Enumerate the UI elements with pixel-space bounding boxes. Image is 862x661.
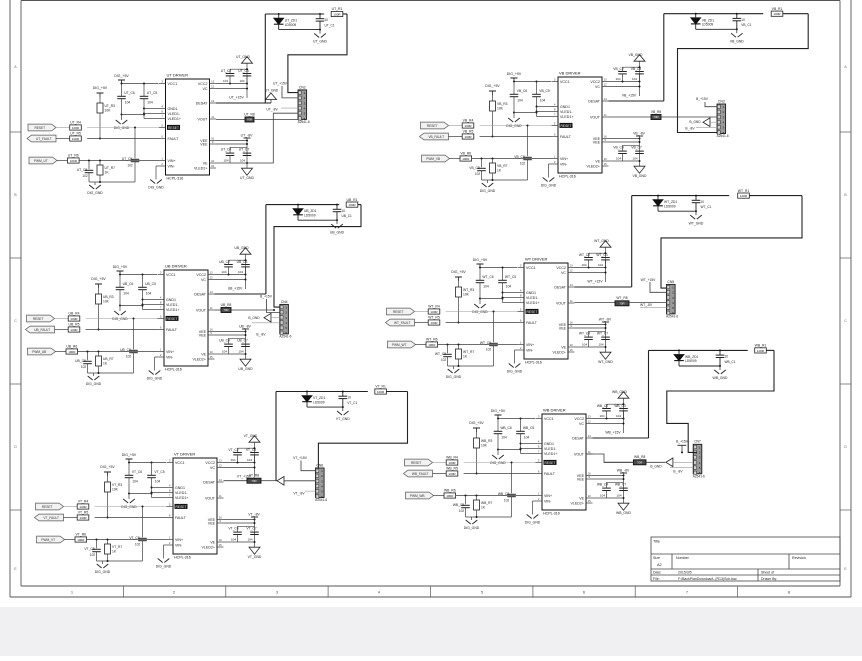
- svg-text:DIG_GND: DIG_GND: [148, 186, 164, 190]
- wire gnd rail 2: [482, 179, 528, 181]
- wire: [458, 297, 460, 323]
- svg-text:VB_R4: VB_R4: [463, 119, 474, 123]
- svg-text:VC: VC: [201, 278, 206, 282]
- ground UT_GND: [313, 34, 327, 44]
- svg-text:DIG_GND: DIG_GND: [86, 382, 102, 386]
- svg-text:104: 104: [582, 343, 587, 347]
- wire: [107, 476, 109, 482]
- power flag DIG_+5V: [469, 421, 484, 432]
- svg-text:VE: VE: [203, 161, 208, 165]
- svg-text:102: 102: [486, 347, 492, 351]
- svg-text:VIN-: VIN-: [526, 348, 534, 352]
- ground arrow: [264, 313, 271, 322]
- svg-text:File:: File:: [653, 577, 660, 581]
- svg-text:70R: 70R: [247, 118, 252, 122]
- svg-text:15: 15: [211, 164, 215, 168]
- node UT_FAULT: [27, 135, 56, 142]
- wire PWM net: [434, 495, 445, 497]
- svg-text:10: 10: [570, 343, 574, 347]
- svg-text:13: 13: [211, 80, 215, 84]
- wire: [640, 307, 667, 309]
- svg-text:VT_R1: VT_R1: [375, 385, 386, 389]
- power flag DIG_+5V: [451, 270, 466, 281]
- ground: [634, 55, 645, 62]
- svg-text:104: 104: [223, 79, 228, 83]
- svg-text:104: 104: [598, 263, 603, 267]
- svg-text:VCC2: VCC2: [205, 461, 215, 465]
- svg-text:10: 10: [701, 200, 705, 204]
- svg-text:VT_C1: VT_C1: [347, 401, 357, 405]
- connector CN4: [279, 300, 291, 339]
- resistor UT_R4: [70, 121, 82, 130]
- wire VCC1 rail: [129, 462, 166, 464]
- wire: [481, 159, 483, 168]
- svg-text:VOUT: VOUT: [196, 308, 207, 312]
- svg-text:104: 104: [599, 414, 604, 418]
- svg-text:DIG_+5V: DIG_+5V: [113, 265, 128, 269]
- node PWM_VB: [422, 155, 450, 162]
- svg-text:LD5009: LD5009: [685, 359, 697, 363]
- svg-text:GND1: GND1: [544, 442, 554, 446]
- svg-text:VEE: VEE: [208, 521, 216, 525]
- svg-text:100R: 100R: [430, 310, 438, 314]
- wire VOUT: [575, 302, 616, 304]
- wire zener rail UB: [266, 204, 339, 206]
- svg-text:VLED1-: VLED1-: [526, 296, 539, 300]
- svg-text:DIG_+5V: DIG_+5V: [507, 72, 522, 76]
- wire gnd rail: [122, 114, 145, 116]
- wire RESET net: [449, 125, 463, 127]
- wire: [133, 319, 135, 350]
- svg-text:UB_C9: UB_C9: [120, 348, 131, 352]
- svg-text:100R: 100R: [77, 538, 85, 542]
- svg-text:UT_R6: UT_R6: [68, 154, 79, 158]
- svg-text:VT_R7: VT_R7: [112, 545, 122, 549]
- svg-text:104: 104: [524, 436, 530, 440]
- svg-text:104: 104: [240, 159, 245, 163]
- svg-text:VB_R5: VB_R5: [463, 130, 474, 134]
- title block: [651, 537, 840, 581]
- wire: [281, 107, 298, 109]
- wire: [301, 461, 316, 471]
- svg-text:104: 104: [616, 414, 621, 418]
- power flag DIG_+5V: [473, 258, 488, 268]
- op-amp U_VB VB DRIVER HCPL-316: [552, 71, 609, 179]
- ground DIG_GND: [114, 120, 130, 130]
- ground DIG_GND: [95, 564, 111, 574]
- svg-text:UB_C7: UB_C7: [237, 339, 248, 343]
- wire PWM net: [65, 539, 76, 541]
- power flag DIG_+5V: [113, 265, 128, 275]
- svg-text:UB_-8V: UB_-8V: [239, 324, 252, 328]
- wire: [134, 128, 136, 159]
- op-amp U_WT WT DRIVER HCPL-316: [518, 257, 575, 365]
- svg-text:104: 104: [238, 270, 243, 274]
- svg-text:VC: VC: [561, 271, 566, 275]
- svg-text:WT_FAULT: WT_FAULT: [394, 321, 410, 325]
- svg-text:RESET: RESET: [176, 505, 187, 509]
- svg-text:VCC1: VCC1: [168, 82, 178, 86]
- svg-text:DESAT: DESAT: [554, 285, 567, 289]
- svg-text:102: 102: [82, 174, 88, 178]
- node RESET: [27, 315, 55, 322]
- svg-text:WT_R6: WT_R6: [426, 338, 438, 342]
- svg-text:Date:: Date:: [653, 571, 661, 575]
- wire zener rail VB: [664, 13, 763, 15]
- wire FAULT net: [449, 136, 463, 138]
- svg-text:RESET: RESET: [527, 310, 538, 314]
- power flag DIG_+5V: [122, 453, 137, 463]
- svg-text:UB_FAULT: UB_FAULT: [34, 328, 50, 332]
- svg-text:102: 102: [459, 509, 465, 513]
- resistor VT_R6: [75, 533, 87, 542]
- ground: [249, 436, 260, 443]
- svg-text:DIG_+5V: DIG_+5V: [469, 421, 484, 425]
- svg-text:10K: 10K: [105, 108, 112, 112]
- wire: [646, 461, 665, 463]
- wire gnd rail: [498, 449, 521, 451]
- svg-text:VT_R4: VT_R4: [78, 500, 89, 504]
- wire VCC2/VC rail: [609, 81, 640, 83]
- svg-text:WT_C1: WT_C1: [701, 205, 712, 209]
- svg-text:WT DRIVER: WT DRIVER: [525, 257, 547, 262]
- svg-text:VT_R3: VT_R3: [112, 483, 122, 487]
- svg-text:UB_R8: UB_R8: [221, 303, 232, 307]
- ground: [600, 241, 611, 248]
- wire VEE rail: [216, 140, 247, 142]
- wire FAULT net: [433, 473, 447, 475]
- wire FAULT net: [64, 517, 78, 519]
- resistor WB_R4: [446, 456, 458, 465]
- op-amp U_UB UB DRIVER HCPL-316: [158, 264, 215, 372]
- svg-text:104: 104: [221, 270, 226, 274]
- resistor VT_R8: [247, 474, 261, 484]
- resistor UB_R8: [221, 303, 232, 313]
- svg-text:VCC2: VCC2: [196, 273, 206, 277]
- wire VOUT jog: [587, 454, 633, 462]
- wire: [107, 540, 109, 545]
- svg-text:UB DRIVER: UB DRIVER: [165, 264, 187, 269]
- svg-text:VCC2: VCC2: [574, 417, 584, 421]
- wire: [128, 478, 130, 494]
- svg-text:HCPL-316: HCPL-316: [559, 175, 576, 179]
- svg-text:RESET: RESET: [42, 505, 53, 509]
- svg-text:70R: 70R: [653, 115, 658, 119]
- svg-text:104: 104: [501, 436, 507, 440]
- svg-text:UT_FAULT: UT_FAULT: [36, 137, 52, 141]
- svg-text:15: 15: [604, 162, 608, 166]
- svg-text:UB_R4: UB_R4: [69, 312, 80, 316]
- svg-text:VLED2+: VLED2+: [194, 166, 208, 170]
- svg-text:12: 12: [604, 83, 608, 87]
- wire zener rail WT: [632, 195, 730, 197]
- svg-text:UB_R7: UB_R7: [103, 357, 114, 361]
- svg-text:VCC2: VCC2: [590, 80, 600, 84]
- resistor WB_R5: [446, 467, 458, 476]
- svg-text:A2541-6: A2541-6: [315, 498, 327, 502]
- svg-text:UT_R5: UT_R5: [70, 132, 81, 136]
- svg-text:B_GND: B_GND: [650, 464, 662, 468]
- wire: [493, 312, 495, 343]
- svg-text:VT_GND: VT_GND: [248, 555, 262, 559]
- svg-text:RESET: RESET: [33, 317, 44, 321]
- node WT_FAULT: [386, 319, 415, 326]
- svg-text:102: 102: [90, 553, 96, 557]
- svg-text:UT_-8V: UT_-8V: [266, 108, 278, 112]
- svg-text:100R: 100R: [430, 321, 438, 325]
- svg-text:FAULT: FAULT: [544, 472, 556, 476]
- svg-text:10: 10: [347, 396, 351, 400]
- wire RESET net: [415, 311, 429, 313]
- wire: [319, 30, 321, 34]
- wire PWM net: [450, 158, 461, 160]
- svg-text:FAULT: FAULT: [175, 516, 187, 520]
- wire: [336, 220, 338, 224]
- wire: [237, 526, 239, 532]
- svg-text:UT_GND: UT_GND: [313, 40, 327, 44]
- svg-text:14: 14: [570, 283, 574, 287]
- resistor WB_R1: [755, 348, 767, 353]
- svg-text:100R: 100R: [464, 135, 472, 139]
- svg-text:LD5009: LD5009: [702, 23, 714, 27]
- wire: [288, 14, 347, 93]
- resistor UT_R7: [97, 165, 115, 175]
- svg-text:VIN-: VIN-: [560, 162, 568, 166]
- node PWM_VT: [37, 536, 65, 543]
- svg-text:FAULT: FAULT: [168, 137, 180, 141]
- wire: [527, 126, 529, 157]
- ground arrow: [277, 477, 284, 486]
- wire cap tops: [623, 66, 640, 68]
- svg-text:13: 13: [604, 78, 608, 82]
- wire: [673, 461, 693, 463]
- svg-text:VLED1-: VLED1-: [175, 491, 188, 495]
- wire VCC1 rail: [498, 418, 535, 420]
- wire VEE rail: [593, 475, 624, 477]
- wire VE: [215, 353, 229, 355]
- svg-text:UT_+15V: UT_+15V: [229, 96, 244, 100]
- wire: [306, 392, 308, 396]
- svg-text:GND1: GND1: [526, 291, 536, 295]
- wire VCC2/VC rail: [216, 83, 247, 85]
- svg-text:VEE: VEE: [199, 333, 207, 337]
- power flag DIG_+5V: [91, 277, 106, 288]
- svg-text:102: 102: [127, 163, 133, 167]
- svg-text:B_+15V: B_+15V: [260, 294, 273, 298]
- svg-text:WT_R7: WT_R7: [463, 350, 474, 354]
- wire cap tops: [230, 68, 247, 70]
- capacitor VB_C1: [736, 14, 738, 19]
- svg-text:VE: VE: [561, 345, 566, 349]
- wire: [284, 480, 316, 482]
- wire: [479, 283, 481, 299]
- svg-text:CN3: CN3: [718, 99, 725, 103]
- wire VCC1 rail: [514, 81, 551, 83]
- svg-text:GND1: GND1: [166, 298, 176, 302]
- svg-text:UT DRIVER: UT DRIVER: [167, 73, 189, 78]
- capacitor WT_C5: [498, 275, 516, 289]
- wire: [282, 86, 298, 98]
- resistor WT_R7: [456, 349, 475, 359]
- svg-text:100R: 100R: [448, 461, 456, 465]
- capacitor VB_C6: [510, 89, 528, 103]
- svg-text:WT_+15V: WT_+15V: [587, 280, 603, 284]
- svg-text:WT_R5: WT_R5: [428, 316, 440, 320]
- svg-text:Drawn By:: Drawn By:: [761, 577, 777, 581]
- svg-text:VIN+: VIN+: [560, 157, 568, 161]
- wire: [265, 205, 267, 294]
- power flag DIG_+5V: [100, 465, 115, 476]
- wire VEE rail: [215, 331, 246, 333]
- wire gnd rail: [129, 493, 152, 495]
- ground: [242, 57, 253, 64]
- svg-text:11: 11: [588, 450, 591, 454]
- resistor VB_R7: [490, 163, 508, 173]
- capacitor UB_C1: [336, 205, 338, 210]
- svg-text:UB_GND: UB_GND: [330, 230, 345, 234]
- capacitor UT_C6: [117, 91, 135, 105]
- wire pin tie: [144, 108, 159, 110]
- svg-text:HCPL-316: HCPL-316: [543, 512, 560, 516]
- svg-text:VB_+15V: VB_+15V: [622, 94, 637, 98]
- resistor VB_R5: [462, 130, 474, 139]
- svg-text:10: 10: [342, 209, 346, 213]
- resistor UT_R3: [97, 103, 115, 113]
- ground DIG_GND: [490, 455, 506, 465]
- svg-text:100R: 100R: [464, 124, 472, 128]
- wire: [622, 145, 624, 151]
- svg-text:13: 13: [210, 271, 214, 275]
- wire VCC2/VC rail: [224, 462, 255, 464]
- resistor WT_R8: [615, 296, 629, 306]
- svg-text:LD5009: LD5009: [285, 23, 297, 27]
- svg-text:WB_R5: WB_R5: [446, 467, 458, 471]
- ground: [240, 359, 251, 366]
- resistor VB_R8: [651, 110, 662, 120]
- svg-text:UB_R1: UB_R1: [347, 198, 358, 202]
- svg-text:VB_R3: VB_R3: [497, 102, 508, 106]
- svg-text:WB_C9: WB_C9: [498, 492, 510, 496]
- capacitor VT_C5: [147, 470, 165, 484]
- resistor UB_R1: [346, 202, 358, 207]
- svg-text:100R: 100R: [757, 349, 765, 353]
- svg-text:WB_GND: WB_GND: [612, 390, 627, 394]
- zone ticks bottom: [10, 132, 851, 597]
- svg-text:WB_-8V: WB_-8V: [617, 468, 630, 472]
- wire VCC2/VC rail: [593, 418, 624, 420]
- svg-text:LD5009: LD5009: [664, 204, 676, 208]
- ground DIG_GND: [506, 118, 522, 128]
- svg-text:UB_R5: UB_R5: [69, 323, 80, 327]
- wire cap tops: [229, 259, 246, 261]
- wire: [710, 121, 717, 123]
- svg-text:VB_C9: VB_C9: [514, 155, 525, 159]
- svg-text:VB_-8V: VB_-8V: [633, 131, 645, 135]
- node PWM_UB: [28, 348, 56, 355]
- svg-text:VT_R6: VT_R6: [76, 533, 87, 537]
- svg-text:104: 104: [247, 538, 252, 542]
- svg-text:WT_C6: WT_C6: [482, 275, 493, 279]
- power flag DIG_+5V: [507, 72, 522, 82]
- wire DESAT: [593, 437, 649, 439]
- svg-text:WT_-8V: WT_-8V: [599, 317, 612, 321]
- wire RESET net: [55, 318, 69, 320]
- wire: [476, 432, 478, 438]
- wire: [736, 29, 738, 33]
- wire VEE rail: [224, 519, 255, 521]
- wire: [631, 196, 633, 287]
- svg-text:D: D: [844, 445, 847, 449]
- op-amp U_WB WB DRIVER HCPL-316: [536, 408, 593, 516]
- svg-text:UB_R6: UB_R6: [66, 345, 77, 349]
- svg-text:102: 102: [81, 365, 87, 369]
- svg-text:RESET: RESET: [561, 124, 572, 128]
- node RESET: [405, 459, 433, 466]
- node PWM_WB: [406, 492, 434, 499]
- wire: [492, 95, 494, 101]
- svg-text:RESET: RESET: [393, 310, 404, 314]
- resistor WT_R4: [428, 305, 440, 314]
- wire zener rail UT: [265, 13, 324, 15]
- svg-text:B_-8V: B_-8V: [256, 333, 266, 337]
- svg-text:104: 104: [517, 99, 523, 103]
- svg-text:VLED1+: VLED1+: [168, 117, 182, 121]
- svg-text:WB_R8: WB_R8: [634, 455, 646, 459]
- wire cap tops: [589, 252, 606, 254]
- svg-text:15: 15: [219, 543, 223, 547]
- svg-text:104: 104: [125, 101, 131, 105]
- wire: [705, 102, 717, 107]
- ground WB_GND: [713, 370, 728, 380]
- svg-text:DIG_+5V: DIG_+5V: [114, 74, 129, 78]
- svg-text:VT_C8: VT_C8: [84, 547, 94, 551]
- wire VCC1 rail: [120, 274, 157, 276]
- svg-text:B_-8V: B_-8V: [685, 127, 695, 131]
- capacitor VT_C6: [125, 470, 143, 484]
- svg-text:DIG_GND: DIG_GND: [95, 570, 111, 574]
- op-amp U_VT VT DRIVER HCPL-316: [167, 452, 224, 560]
- svg-text:14: 14: [211, 99, 215, 103]
- svg-text:WB_FAULT: WB_FAULT: [412, 472, 429, 476]
- svg-text:DIG_GND: DIG_GND: [525, 521, 541, 525]
- wire VEE rail: [609, 138, 640, 140]
- svg-text:DIG_GND: DIG_GND: [112, 317, 128, 321]
- wire: [278, 14, 280, 18]
- ground DIG_GND: [147, 371, 163, 381]
- svg-text:GND1: GND1: [175, 486, 185, 490]
- resistor WB_R7: [474, 500, 493, 510]
- svg-text:PWM_WB: PWM_WB: [410, 494, 425, 498]
- resistor WT_R5: [428, 316, 440, 325]
- wire FAULT net: [415, 322, 429, 324]
- svg-text:100R: 100R: [448, 472, 456, 476]
- svg-text:14: 14: [219, 478, 223, 482]
- wire VEE rail: [575, 324, 606, 326]
- svg-text:VC: VC: [203, 87, 208, 91]
- capacitor WB_C1: [719, 350, 721, 355]
- wire cap tops: [607, 403, 624, 405]
- svg-text:100R: 100R: [70, 159, 78, 163]
- wire: [121, 99, 123, 115]
- resistor UB_R6: [66, 345, 78, 354]
- svg-text:104: 104: [483, 285, 489, 289]
- svg-text:100R: 100R: [428, 343, 436, 347]
- svg-text:VOUT: VOUT: [574, 452, 585, 456]
- svg-text:DIG_+5V: DIG_+5V: [485, 84, 500, 88]
- svg-text:UB_GND: UB_GND: [234, 246, 249, 250]
- svg-text:102: 102: [135, 542, 141, 546]
- svg-text:VE: VE: [595, 159, 600, 163]
